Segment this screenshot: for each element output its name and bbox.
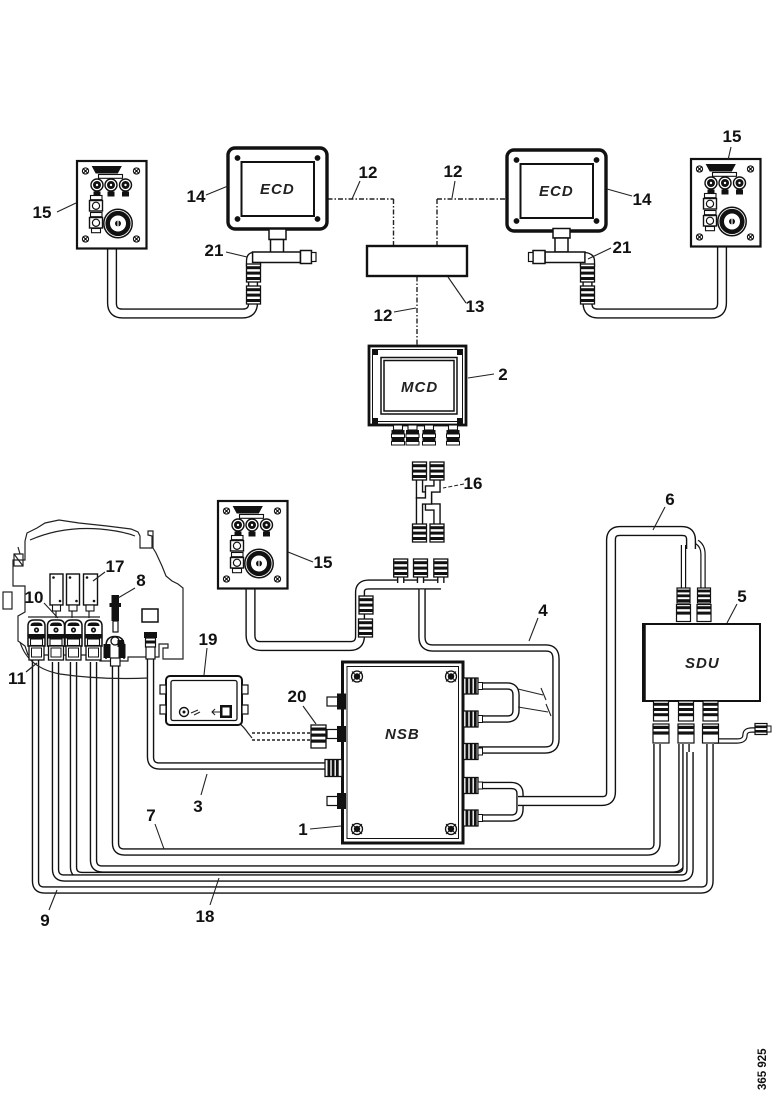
svg-text:ECD: ECD xyxy=(539,183,574,200)
svg-text:18: 18 xyxy=(196,907,215,926)
svg-text:6: 6 xyxy=(665,490,674,509)
svg-text:3: 3 xyxy=(193,797,202,816)
svg-text:13: 13 xyxy=(466,297,485,316)
svg-text:14: 14 xyxy=(187,187,206,206)
svg-text:15: 15 xyxy=(33,203,52,222)
svg-text:12: 12 xyxy=(359,163,378,182)
svg-text:5: 5 xyxy=(737,587,746,606)
svg-text:11: 11 xyxy=(8,669,26,688)
svg-text:7: 7 xyxy=(146,806,155,825)
svg-text:19: 19 xyxy=(199,630,218,649)
svg-text:8: 8 xyxy=(136,571,145,590)
svg-text:SDU: SDU xyxy=(685,655,720,672)
svg-text:365 925: 365 925 xyxy=(757,1048,769,1090)
svg-text:1: 1 xyxy=(298,820,307,839)
svg-text:2: 2 xyxy=(498,365,507,384)
svg-text:12: 12 xyxy=(374,306,393,325)
svg-text:17: 17 xyxy=(106,557,125,576)
svg-text:21: 21 xyxy=(613,238,632,257)
svg-text:4: 4 xyxy=(538,601,548,620)
svg-text:10: 10 xyxy=(25,588,44,607)
svg-text:15: 15 xyxy=(723,127,742,146)
svg-text:16: 16 xyxy=(464,474,483,493)
svg-text:MCD: MCD xyxy=(401,379,438,396)
svg-text:12: 12 xyxy=(444,162,463,181)
svg-text:ECD: ECD xyxy=(260,181,295,198)
svg-text:9: 9 xyxy=(40,911,49,930)
svg-text:14: 14 xyxy=(633,190,652,209)
svg-text:15: 15 xyxy=(314,553,333,572)
svg-text:21: 21 xyxy=(205,241,224,260)
svg-text:20: 20 xyxy=(288,687,307,706)
svg-text:NSB: NSB xyxy=(385,726,420,743)
